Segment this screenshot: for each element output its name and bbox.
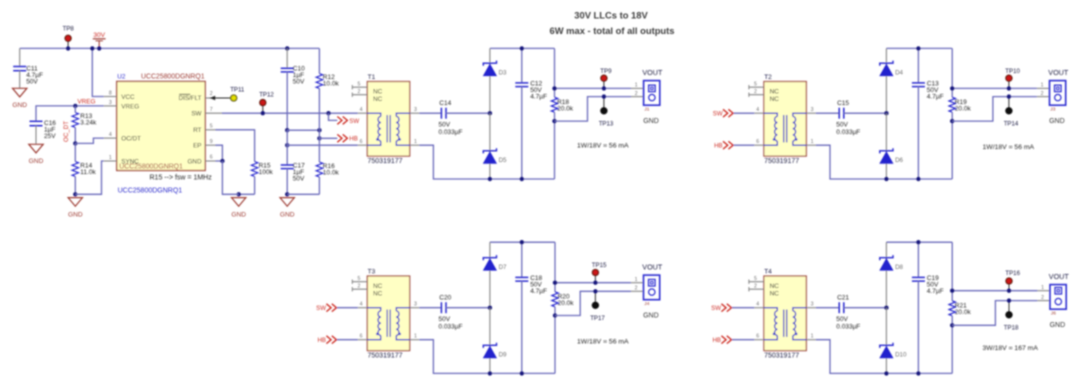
svg-text:HB: HB bbox=[318, 337, 326, 344]
svg-text:2: 2 bbox=[210, 91, 213, 97]
svg-text:VCC: VCC bbox=[121, 94, 135, 101]
capacitor C12 bbox=[515, 48, 547, 179]
node C18 bottom rail junction bbox=[520, 371, 524, 375]
svg-text:50V: 50V bbox=[836, 121, 848, 128]
node rail junction C10 bbox=[285, 46, 289, 50]
svg-text:TP11: TP11 bbox=[230, 87, 245, 94]
svg-text:DIS/FLT: DIS/FLT bbox=[179, 95, 202, 102]
diode D8 bbox=[880, 242, 904, 308]
node HB flag junction bbox=[317, 136, 321, 140]
svg-text:OC/DT: OC/DT bbox=[121, 136, 141, 143]
node rectifier mid junction T4 bbox=[884, 306, 888, 310]
wire VCC branch bbox=[92, 48, 104, 96]
svg-text:GND: GND bbox=[1049, 118, 1065, 125]
svg-text:10.0k: 10.0k bbox=[323, 81, 340, 88]
svg-text:1: 1 bbox=[109, 155, 112, 161]
wire GND pin 6 bbox=[216, 160, 223, 162]
svg-text:TP14: TP14 bbox=[1004, 120, 1019, 127]
svg-text:4.7µF: 4.7µF bbox=[927, 93, 944, 100]
wire HB net to T1 pin 6 bbox=[287, 144, 358, 146]
capacitor C17 bbox=[281, 130, 305, 194]
transformer T3 750319177 bbox=[352, 276, 419, 351]
capacitor C20 bbox=[439, 294, 463, 330]
node C19 top rail junction bbox=[916, 240, 920, 244]
capacitor C14 bbox=[439, 100, 463, 136]
svg-text:1W/18V = 56 mA: 1W/18V = 56 mA bbox=[983, 144, 1035, 151]
svg-text:TP18: TP18 bbox=[1004, 324, 1019, 331]
node C19 bottom rail junction bbox=[916, 371, 920, 375]
node EP GND junction bbox=[220, 159, 224, 163]
node C12 bottom rail junction bbox=[520, 177, 524, 181]
wire C15 to rectifier bbox=[844, 112, 887, 114]
svg-text:RT: RT bbox=[193, 127, 201, 134]
svg-text:10.0k: 10.0k bbox=[323, 169, 340, 176]
svg-text:HB: HB bbox=[714, 143, 722, 150]
node C12 top rail junction bbox=[520, 46, 524, 50]
wire RT to R15 bbox=[216, 130, 255, 162]
svg-text:1: 1 bbox=[635, 277, 638, 283]
net flag HB input of T4 bbox=[713, 336, 732, 344]
svg-text:J4: J4 bbox=[644, 301, 649, 307]
wire T2 pin 1 down bbox=[816, 145, 887, 179]
resistor R13 bbox=[72, 106, 97, 143]
svg-text:50V: 50V bbox=[26, 78, 38, 85]
svg-text:2: 2 bbox=[635, 286, 638, 292]
op-amp U2 UCC25800DGNRQ1 body bbox=[117, 81, 206, 170]
wire rectifier top rail bbox=[886, 47, 952, 49]
svg-text:5: 5 bbox=[754, 82, 757, 88]
node R21 top junction bbox=[950, 289, 954, 293]
node R20 top junction bbox=[553, 281, 557, 285]
svg-text:2: 2 bbox=[635, 91, 638, 97]
svg-text:1: 1 bbox=[414, 334, 417, 340]
resistor R20 bbox=[552, 242, 574, 373]
test point TP13 bbox=[599, 97, 614, 128]
svg-text:1W/18V = 56 mA: 1W/18V = 56 mA bbox=[577, 142, 629, 149]
node C10 bottom junction bbox=[285, 128, 289, 132]
svg-text:6W max - total of all outputs: 6W max - total of all outputs bbox=[549, 25, 674, 36]
diode D10 bbox=[880, 308, 907, 374]
node R19 bottom junction bbox=[950, 119, 954, 123]
svg-text:UCC25800DGNRQ1: UCC25800DGNRQ1 bbox=[118, 188, 183, 195]
svg-text:0.033µF: 0.033µF bbox=[439, 129, 463, 136]
svg-text:SW: SW bbox=[713, 111, 723, 118]
svg-text:GND: GND bbox=[68, 211, 83, 218]
svg-text:TP16: TP16 bbox=[1005, 270, 1020, 277]
svg-text:6: 6 bbox=[756, 334, 759, 340]
test point TP16 bbox=[1005, 270, 1020, 291]
svg-text:NC: NC bbox=[373, 283, 383, 290]
svg-text:1: 1 bbox=[1041, 83, 1044, 89]
wire HB flag stub bbox=[319, 137, 337, 139]
svg-text:2: 2 bbox=[754, 89, 757, 95]
svg-text:C21: C21 bbox=[837, 294, 849, 301]
svg-text:3.24k: 3.24k bbox=[80, 120, 97, 127]
connector J4 VOUT bbox=[631, 275, 660, 300]
node C13 bottom rail junction bbox=[916, 177, 920, 181]
capacitor C19 bbox=[912, 242, 944, 373]
wire R16 to ground junction bbox=[287, 193, 319, 195]
svg-text:0.033µF: 0.033µF bbox=[836, 324, 860, 331]
svg-text:D10: D10 bbox=[895, 352, 907, 359]
svg-text:30V LLCs to 18V: 30V LLCs to 18V bbox=[574, 10, 648, 21]
net flag SW output bbox=[337, 117, 359, 125]
svg-text:GND: GND bbox=[643, 312, 659, 319]
svg-text:GND: GND bbox=[188, 158, 202, 165]
wire C14 to rectifier bbox=[446, 112, 490, 114]
svg-text:VREG: VREG bbox=[121, 103, 139, 110]
test point TP18 bbox=[1004, 301, 1019, 332]
svg-text:3: 3 bbox=[414, 107, 417, 113]
net flag SW input of T2 bbox=[713, 109, 733, 117]
svg-text:4: 4 bbox=[756, 302, 759, 308]
svg-text:C14: C14 bbox=[439, 100, 451, 107]
wire rectifier top rail bbox=[886, 241, 952, 243]
wire SW net pin7 to T1 bbox=[222, 112, 358, 114]
pin 2 DIS/FLT bbox=[179, 91, 214, 102]
wire rectifier bottom rail bbox=[886, 178, 952, 180]
svg-text:4: 4 bbox=[756, 107, 759, 113]
wire GND return of T2 bbox=[952, 97, 1037, 122]
node R18 bottom junction bbox=[552, 119, 556, 123]
node R15 ground junction bbox=[237, 192, 241, 196]
pin 7 SW bbox=[191, 107, 222, 118]
node R18 top junction bbox=[552, 86, 556, 90]
wire rectifier top rail bbox=[490, 241, 555, 243]
svg-text:4: 4 bbox=[360, 107, 363, 113]
svg-text:20.0k: 20.0k bbox=[955, 309, 972, 316]
node TP16 junction bbox=[1007, 289, 1011, 293]
svg-text:T4: T4 bbox=[764, 269, 772, 276]
node VCC rail junction bbox=[90, 46, 94, 50]
node rectifier mid junction T1 bbox=[488, 111, 492, 115]
wire SW flag stub bbox=[329, 113, 338, 120]
svg-text:1: 1 bbox=[1041, 285, 1044, 291]
svg-text:NC: NC bbox=[373, 88, 383, 95]
test point TP14 bbox=[1004, 97, 1019, 128]
svg-text:3: 3 bbox=[414, 302, 417, 308]
diode D6 bbox=[880, 113, 904, 179]
wire SW to T4 pin 4 bbox=[732, 307, 754, 309]
pin 8 VCC bbox=[104, 91, 135, 101]
diode D3 bbox=[483, 48, 507, 113]
svg-text:5: 5 bbox=[357, 82, 360, 88]
node R21 bottom junction bbox=[950, 323, 954, 327]
svg-text:NC: NC bbox=[373, 290, 383, 297]
svg-text:30V: 30V bbox=[93, 32, 105, 39]
svg-text:1: 1 bbox=[414, 139, 417, 145]
svg-text:6: 6 bbox=[360, 139, 363, 145]
capacitor C11 bbox=[13, 48, 43, 88]
svg-text:VOUT: VOUT bbox=[1048, 68, 1069, 77]
svg-text:TP17: TP17 bbox=[590, 315, 605, 322]
svg-text:D9: D9 bbox=[499, 352, 507, 359]
wire SW to T2 pin 4 bbox=[734, 112, 755, 114]
node D10 bottom rail junction bbox=[884, 371, 888, 375]
wire rectifier top rail bbox=[490, 47, 555, 49]
svg-text:NC: NC bbox=[770, 290, 780, 297]
capacitor C10 bbox=[281, 48, 305, 130]
svg-text:50V: 50V bbox=[293, 79, 305, 86]
wire OC/DT jog to pin 4 bbox=[75, 138, 104, 143]
wire T1 pin 3 to C14 bbox=[419, 112, 441, 114]
node HB tie right junction bbox=[317, 128, 321, 132]
connector J1 VOUT bbox=[631, 81, 660, 106]
test point TP9 bbox=[600, 68, 612, 89]
node TP12 junction bbox=[261, 111, 265, 115]
svg-text:NC: NC bbox=[373, 96, 383, 103]
svg-text:6: 6 bbox=[210, 155, 213, 161]
node SW flag junction bbox=[326, 111, 330, 115]
svg-text:3: 3 bbox=[109, 100, 112, 106]
node HB to T1 junction bbox=[285, 143, 289, 147]
svg-text:GND: GND bbox=[643, 118, 659, 125]
svg-text:4.7µF: 4.7µF bbox=[530, 93, 547, 100]
svg-text:1: 1 bbox=[635, 83, 638, 89]
svg-text:R15 --> fsw = 1MHz: R15 --> fsw = 1MHz bbox=[150, 175, 213, 182]
svg-text:100k: 100k bbox=[259, 169, 274, 176]
wire GND return of T1 bbox=[555, 97, 632, 122]
svg-text:SW: SW bbox=[191, 111, 201, 118]
wire T4 pin 3 to C21 bbox=[816, 307, 839, 309]
node C18 top rail junction bbox=[520, 240, 524, 244]
node R19 top junction bbox=[950, 86, 954, 90]
ground below C16 bbox=[29, 144, 43, 153]
svg-text:0.033µF: 0.033µF bbox=[439, 324, 463, 331]
svg-text:1: 1 bbox=[811, 334, 814, 340]
wire VOUT output of T3 bbox=[555, 282, 631, 284]
node TP13 junction bbox=[602, 94, 606, 98]
transformer T2 750319177 bbox=[749, 82, 816, 157]
net flag HB input of T3 bbox=[318, 336, 337, 344]
svg-text:VOUT: VOUT bbox=[642, 68, 663, 77]
svg-text:J1: J1 bbox=[644, 106, 649, 112]
node rectifier mid junction T3 bbox=[488, 306, 492, 310]
svg-text:VREG: VREG bbox=[77, 98, 95, 105]
svg-text:6: 6 bbox=[360, 334, 363, 340]
svg-text:20.0k: 20.0k bbox=[558, 300, 575, 307]
transformer T4 750319177 bbox=[749, 276, 816, 351]
svg-text:TP8: TP8 bbox=[63, 26, 75, 33]
svg-text:D6: D6 bbox=[895, 157, 903, 164]
wire DIS/FLT to TP11 with arrow bbox=[210, 96, 231, 101]
svg-text:4.7µF: 4.7µF bbox=[530, 288, 547, 295]
svg-text:T2: T2 bbox=[764, 74, 772, 81]
node C13 top rail junction bbox=[916, 46, 920, 50]
svg-text:GND: GND bbox=[1050, 322, 1066, 329]
svg-text:20.0k: 20.0k bbox=[955, 105, 972, 112]
connector J6 VOUT bbox=[1037, 285, 1066, 310]
resistor R19 bbox=[949, 48, 971, 179]
svg-text:4: 4 bbox=[109, 132, 112, 138]
svg-text:6: 6 bbox=[756, 139, 759, 145]
svg-text:2: 2 bbox=[754, 284, 757, 290]
diode D5 bbox=[483, 113, 507, 179]
svg-text:VOUT: VOUT bbox=[642, 263, 663, 272]
svg-text:3: 3 bbox=[811, 302, 814, 308]
node 30V junction TP8 bbox=[66, 46, 70, 50]
svg-text:EP: EP bbox=[193, 143, 201, 150]
svg-text:4: 4 bbox=[360, 302, 363, 308]
svg-text:GND: GND bbox=[231, 211, 246, 218]
pin 4 OC/DT bbox=[104, 132, 141, 142]
svg-text:50V: 50V bbox=[439, 316, 451, 323]
capacitor C21 bbox=[836, 294, 860, 330]
svg-text:D5: D5 bbox=[499, 157, 507, 164]
svg-text:D4: D4 bbox=[895, 69, 903, 76]
wire SW to T3 pin 4 bbox=[337, 307, 358, 309]
node 30V junction flag bbox=[97, 46, 101, 50]
node R14 ground junction bbox=[73, 192, 77, 196]
node TP18 junction bbox=[1007, 298, 1011, 302]
resistor R15 bbox=[251, 162, 273, 195]
wire GND return of T3 bbox=[555, 291, 631, 315]
svg-text:50V: 50V bbox=[293, 176, 305, 183]
diode D7 bbox=[483, 242, 507, 308]
wire T4 pin 1 down bbox=[816, 340, 887, 374]
wire T2 pin 3 to C15 bbox=[816, 112, 839, 114]
test point TP11 bbox=[230, 87, 245, 102]
node TP10 junction bbox=[1007, 86, 1011, 90]
node C17 ground junction bbox=[285, 192, 289, 196]
node VREG junction R13 bbox=[73, 104, 77, 108]
svg-text:UCC25800DGNRQ1: UCC25800DGNRQ1 bbox=[141, 74, 205, 81]
svg-text:3W/18V = 167 mA: 3W/18V = 167 mA bbox=[983, 345, 1039, 352]
resistor R16 bbox=[316, 130, 339, 194]
connector J3 VOUT bbox=[1037, 81, 1066, 106]
net flag SW input of T4 bbox=[711, 304, 731, 312]
svg-text:2: 2 bbox=[1041, 91, 1044, 97]
node D5 bottom rail junction bbox=[488, 177, 492, 181]
wire VREG net bbox=[36, 106, 104, 121]
node TP14 junction bbox=[1007, 94, 1011, 98]
node D6 bottom rail junction bbox=[884, 177, 888, 181]
svg-text:GND: GND bbox=[280, 211, 295, 218]
wire 30V rail bbox=[20, 47, 320, 49]
svg-text:GND: GND bbox=[12, 102, 27, 109]
node TP9 junction bbox=[602, 86, 606, 90]
capacitor C15 bbox=[836, 100, 860, 136]
ground below R15 bbox=[232, 198, 246, 207]
svg-text:SW: SW bbox=[349, 118, 359, 125]
svg-text:5: 5 bbox=[754, 276, 757, 282]
wire VOUT output of T1 bbox=[555, 87, 632, 89]
wire rectifier bottom rail bbox=[886, 372, 952, 374]
svg-text:2: 2 bbox=[357, 89, 360, 95]
svg-text:HB: HB bbox=[713, 337, 721, 344]
test point TP17 bbox=[590, 291, 605, 322]
svg-text:C15: C15 bbox=[837, 100, 849, 107]
test point TP10 bbox=[1005, 68, 1020, 89]
svg-text:11.0k: 11.0k bbox=[80, 169, 96, 176]
resistor R21 bbox=[949, 242, 971, 373]
wire R15 to ground bbox=[239, 193, 255, 195]
wire C21 to rectifier bbox=[844, 307, 887, 309]
svg-text:J6: J6 bbox=[1051, 310, 1056, 316]
ground below R14 bbox=[68, 198, 82, 207]
svg-text:9: 9 bbox=[210, 139, 213, 145]
wire EP pin to GND pin bbox=[216, 145, 223, 161]
wire rectifier bottom rail bbox=[490, 372, 555, 374]
svg-text:750319177: 750319177 bbox=[764, 158, 799, 165]
pin 6 GND bbox=[188, 155, 216, 166]
svg-text:TP13: TP13 bbox=[599, 120, 614, 127]
svg-text:5: 5 bbox=[210, 123, 213, 129]
net flag HB output bbox=[337, 134, 357, 142]
svg-text:NC: NC bbox=[770, 283, 780, 290]
node R20 bottom junction bbox=[553, 313, 557, 317]
wire VOUT output of T4 bbox=[952, 290, 1037, 292]
svg-text:8: 8 bbox=[109, 91, 112, 97]
svg-text:D3: D3 bbox=[499, 69, 507, 76]
node TP17 junction bbox=[593, 289, 597, 293]
svg-text:D8: D8 bbox=[895, 264, 903, 271]
svg-text:D7: D7 bbox=[499, 264, 507, 271]
svg-text:TP10: TP10 bbox=[1005, 68, 1020, 75]
svg-text:NC: NC bbox=[770, 88, 780, 95]
node R13 R14 junction bbox=[73, 141, 77, 145]
ground below C17 bbox=[280, 198, 294, 207]
wire rectifier bottom rail bbox=[490, 178, 555, 180]
svg-text:VOUT: VOUT bbox=[1049, 272, 1070, 281]
svg-text:HB: HB bbox=[349, 136, 357, 143]
svg-text:750319177: 750319177 bbox=[764, 352, 799, 359]
svg-text:TP9: TP9 bbox=[600, 68, 612, 75]
wire HB to T4 pin 6 bbox=[732, 339, 754, 341]
resistor R14 bbox=[72, 143, 96, 194]
svg-text:SW: SW bbox=[711, 305, 721, 312]
test point TP8 bbox=[63, 26, 75, 49]
svg-text:5: 5 bbox=[357, 276, 360, 282]
svg-text:SW: SW bbox=[316, 305, 326, 312]
svg-text:2: 2 bbox=[357, 284, 360, 290]
test point TP15 bbox=[592, 262, 607, 283]
resistor R18 bbox=[551, 48, 573, 179]
svg-text:J3: J3 bbox=[1050, 106, 1055, 112]
pin 5 RT bbox=[193, 123, 215, 134]
svg-text:20.0k: 20.0k bbox=[557, 105, 574, 112]
svg-text:GND: GND bbox=[29, 158, 44, 165]
svg-text:NC: NC bbox=[770, 96, 780, 103]
power flag 30V bbox=[93, 32, 106, 48]
diode D9 bbox=[483, 308, 507, 374]
svg-text:1: 1 bbox=[811, 139, 814, 145]
capacitor C13 bbox=[912, 48, 944, 179]
svg-text:750319177: 750319177 bbox=[368, 158, 403, 165]
wire HB to T3 pin 6 bbox=[337, 339, 358, 341]
wire GND return of T4 bbox=[952, 301, 1037, 326]
svg-text:750319177: 750319177 bbox=[368, 352, 403, 359]
capacitor C16 bbox=[30, 120, 57, 144]
test point TP12 bbox=[259, 91, 274, 113]
resistor R12 bbox=[316, 48, 339, 130]
svg-text:UCC25800DGNRQ1: UCC25800DGNRQ1 bbox=[119, 164, 183, 171]
wire T3 pin 1 down bbox=[419, 340, 490, 374]
svg-text:TP15: TP15 bbox=[592, 262, 607, 269]
svg-text:4.7µF: 4.7µF bbox=[927, 288, 944, 295]
wire HB to T2 pin 6 bbox=[734, 144, 755, 146]
diode D4 bbox=[880, 48, 904, 113]
svg-text:50V: 50V bbox=[439, 121, 451, 128]
svg-text:C20: C20 bbox=[439, 294, 451, 301]
net flag SW input of T3 bbox=[316, 304, 336, 312]
pin 3 VREG bbox=[104, 100, 139, 110]
svg-text:T1: T1 bbox=[368, 74, 376, 81]
svg-text:25V: 25V bbox=[44, 133, 56, 140]
wire T3 pin 3 to C20 bbox=[419, 307, 441, 309]
wire SYNC pin 1 to ground bbox=[75, 161, 104, 194]
svg-text:1W/18V = 56 mA: 1W/18V = 56 mA bbox=[577, 338, 629, 345]
